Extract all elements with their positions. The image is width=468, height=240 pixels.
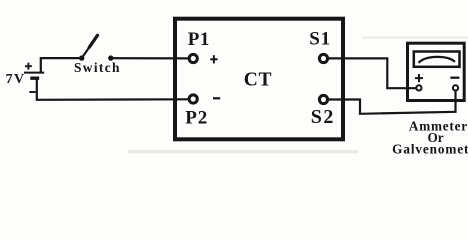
label Ammeter Or Galvenometer (392, 119, 468, 157)
switch blade (82, 46, 91, 59)
svg-text:7V: 7V (6, 72, 26, 87)
meter scale arc (419, 57, 456, 63)
meter M1 outer box (408, 43, 465, 100)
battery minus sign (29, 91, 35, 93)
battery plus sign (25, 63, 32, 70)
terminal S1 (319, 54, 327, 62)
terminal P1 (189, 54, 197, 62)
svg-text:P2: P2 (185, 108, 208, 129)
wire switch to terminal P1 (111, 57, 188, 59)
svg-text:Switch: Switch (74, 60, 121, 75)
svg-text:S2: S2 (311, 106, 335, 128)
scan streak artifact below CT box (128, 150, 358, 153)
wire S1 to meter plus terminal (329, 58, 416, 88)
svg-text:Galvenometer: Galvenometer (392, 142, 468, 157)
wire battery- to terminal P2 (37, 78, 188, 100)
meter plus terminal (416, 85, 421, 90)
node switch left contact (79, 55, 84, 60)
meter minus terminal (453, 85, 458, 90)
battery B1 plates (24, 73, 44, 79)
wire battery+ to switch (41, 58, 82, 73)
meter dial window (414, 52, 460, 67)
terminal P2 (189, 95, 197, 103)
P1 plus sign (210, 55, 217, 63)
P2 minus sign (213, 97, 220, 99)
terminal S2 (319, 95, 327, 103)
wire S2 to meter minus terminal (329, 91, 456, 114)
svg-text:S1: S1 (309, 28, 330, 49)
svg-text:CT: CT (244, 69, 272, 90)
scan streak artifact right of CT box (362, 36, 468, 38)
meter minus sign (450, 77, 459, 79)
svg-text:P1: P1 (188, 29, 210, 50)
node switch right contact (108, 55, 113, 60)
CT transformer box U1 (175, 19, 343, 140)
meter plus sign (415, 74, 423, 82)
